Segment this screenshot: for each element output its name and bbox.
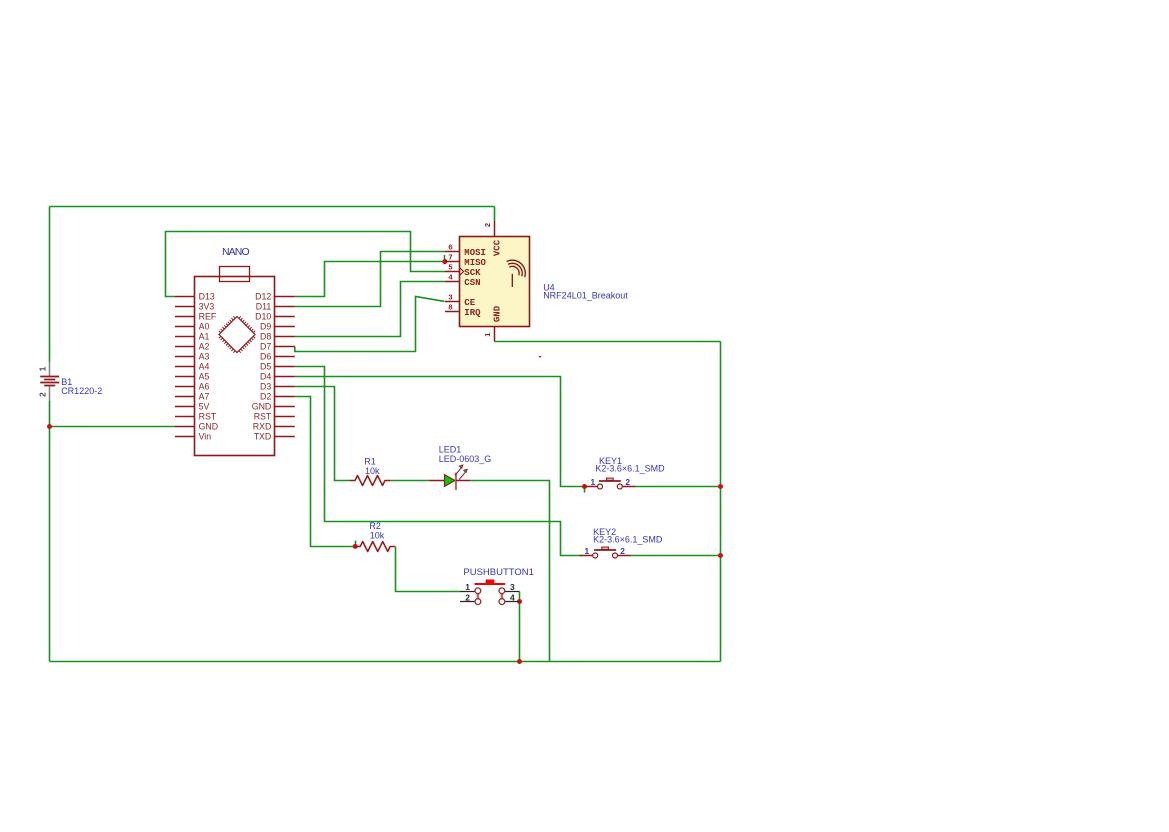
PUSHBUTTON1 contact circle	[475, 599, 481, 605]
wire D12 to MISO	[295, 262, 445, 297]
svg-text:D6: D6	[260, 352, 271, 362]
svg-text:GND: GND	[492, 305, 502, 322]
wire D11 to MOSI	[295, 252, 445, 307]
svg-text:NANO: NANO	[222, 246, 249, 258]
svg-text:D5: D5	[260, 362, 271, 372]
wire KEY1 pin 2 to right rail	[635, 486, 721, 488]
switch actuator bar	[599, 480, 621, 482]
PUSHBUTTON1 pin leads	[460, 592, 520, 602]
svg-text:D11: D11	[256, 302, 272, 312]
resistor R1	[350, 476, 390, 486]
svg-text:A3: A3	[199, 352, 210, 362]
wire PUSHBUTTON1 pin 3 to pin 4	[519, 592, 521, 602]
wire VCC top rail	[50, 206, 495, 208]
svg-text:Vin: Vin	[199, 432, 212, 442]
wire battery pin 2 down left rail	[49, 401, 51, 662]
svg-text:1: 1	[38, 366, 48, 371]
wire battery node to NANO GND	[50, 426, 176, 428]
svg-text:GND: GND	[252, 402, 272, 412]
svg-text:TXD: TXD	[254, 432, 272, 442]
svg-text:8: 8	[448, 303, 452, 312]
PUSHBUTTON1 contact circle	[499, 588, 505, 594]
svg-text:LED1: LED1	[439, 444, 462, 454]
wire D4 to KEY1 pin 1	[295, 377, 585, 487]
svg-text:2: 2	[483, 223, 492, 227]
wire R1 to LED1	[390, 480, 429, 482]
PUSHBUTTON1 contact circle	[475, 588, 481, 594]
PUSHBUTTON1 contact bar left	[477, 591, 480, 602]
switch lead pin1	[585, 486, 598, 488]
NANO pin leads	[175, 297, 295, 437]
LED1 cathode lead	[456, 480, 470, 482]
wire bottom rail	[50, 661, 721, 663]
svg-text:D9: D9	[260, 322, 271, 332]
svg-text:RXD: RXD	[253, 422, 272, 432]
svg-text:MOSI: MOSI	[464, 248, 486, 258]
svg-text:IRQ: IRQ	[464, 308, 481, 318]
battery B1 plates	[40, 377, 59, 386]
svg-text:R2: R2	[369, 521, 381, 531]
U4 left pin leads	[445, 252, 460, 312]
switch lead pin1	[580, 555, 593, 557]
LED1 anode lead	[429, 480, 444, 482]
wire D5 to KEY2 pin 1	[295, 367, 582, 556]
svg-text:K2-3.6×6.1_SMD: K2-3.6×6.1_SMD	[595, 464, 665, 474]
svg-text:VCC: VCC	[492, 239, 502, 256]
battery B1 leads	[49, 362, 51, 402]
wire D3 to R1	[295, 387, 350, 481]
svg-text:3: 3	[510, 582, 515, 592]
wire R2 to PUSHBUTTON1 pin 1	[396, 547, 461, 592]
stray mark	[539, 356, 542, 357]
switch lead pin2	[622, 486, 635, 488]
svg-text:D4: D4	[260, 372, 271, 382]
svg-text:D2: D2	[260, 392, 271, 402]
svg-text:3: 3	[448, 293, 452, 302]
LED1 emission arrow 1	[455, 468, 461, 475]
wire stub above MISO junction	[444, 255, 446, 259]
svg-text:A5: A5	[199, 372, 210, 382]
svg-text:2: 2	[465, 592, 470, 602]
svg-text:2: 2	[620, 546, 625, 556]
svg-text:A4: A4	[199, 362, 210, 372]
svg-text:1: 1	[585, 546, 590, 556]
switch contact circle left	[593, 553, 598, 558]
junction KEY1 pin1	[582, 484, 587, 489]
svg-text:A7: A7	[199, 392, 210, 402]
svg-text:D13: D13	[199, 292, 215, 302]
resistor R2	[355, 542, 395, 552]
wire LED1 to bottom rail	[470, 481, 550, 662]
wire left rail to battery pin 1	[49, 207, 51, 362]
wire D13 to SCK	[166, 232, 446, 297]
svg-text:A0: A0	[199, 322, 210, 332]
svg-text:CE: CE	[464, 298, 475, 308]
svg-text:SCK: SCK	[464, 268, 481, 278]
junction KEY2 pin2	[718, 553, 723, 558]
wire PUSHBUTTON1 pin 4 to bottom rail	[519, 602, 521, 662]
junction bottom rail	[517, 659, 522, 664]
LED1 emission arrow 2	[459, 472, 465, 479]
svg-text:REF: REF	[199, 312, 217, 322]
PUSHBUTTON1 contact circle	[499, 599, 505, 605]
svg-text:LED-0603_G: LED-0603_G	[439, 454, 492, 464]
wire VCC drop to U4 pin 2	[494, 207, 496, 222]
svg-text:A1: A1	[199, 332, 210, 342]
svg-text:1: 1	[465, 582, 470, 592]
U4 GND pin lead (pin 1)	[494, 327, 496, 342]
svg-text:5V: 5V	[199, 402, 210, 412]
switch lead pin2	[618, 555, 631, 557]
PUSHBUTTON1 actuator bar (red)	[475, 583, 506, 585]
junction MISO	[442, 259, 447, 264]
svg-text:PUSHBUTTON1: PUSHBUTTON1	[463, 567, 534, 578]
NANO body	[195, 277, 275, 456]
svg-text:D12: D12	[255, 292, 271, 302]
svg-text:CR1220-2: CR1220-2	[61, 386, 102, 396]
switch contact circle right	[617, 484, 622, 489]
NANO usb notch	[220, 267, 250, 282]
svg-text:D7: D7	[260, 342, 271, 352]
junction KEY1 pin2	[718, 484, 723, 489]
svg-text:6: 6	[448, 243, 452, 252]
svg-text:10k: 10k	[370, 531, 385, 541]
wire U4 GND to right rail	[495, 341, 721, 343]
svg-text:1: 1	[591, 477, 596, 487]
svg-text:R1: R1	[364, 456, 376, 466]
U4 SCK clock chevron	[460, 268, 464, 276]
wire right rail	[720, 342, 722, 662]
U4 antenna icon arcs	[507, 260, 526, 277]
svg-text:GND: GND	[199, 422, 219, 432]
LED1 triangle	[445, 475, 455, 487]
switch contact circle right	[613, 553, 618, 558]
op U4 NRF24L01_Breakout body	[460, 237, 530, 327]
svg-text:K2-3.6×6.1_SMD: K2-3.6×6.1_SMD	[593, 534, 663, 544]
svg-text:10k: 10k	[365, 466, 380, 476]
svg-text:A6: A6	[199, 382, 210, 392]
junction R2 pin1	[353, 544, 358, 549]
wire stub below KEY1 pin 1 junction	[584, 489, 586, 493]
svg-text:D8: D8	[260, 332, 271, 342]
junction battery-GND	[47, 424, 52, 429]
switch actuator bump	[602, 547, 609, 549]
junction PUSHBUTTON1 pin4	[517, 599, 522, 604]
svg-text:7: 7	[448, 253, 452, 262]
wire D2 to R2	[295, 397, 355, 547]
NANO chip diamond	[219, 317, 255, 353]
svg-text:RST: RST	[254, 412, 272, 422]
PUSHBUTTON1 actuator knob (red)	[486, 580, 495, 584]
svg-text:2: 2	[625, 477, 630, 487]
wire D7 to CE	[295, 297, 445, 352]
NANO chip diamond ticks	[219, 316, 255, 352]
wire stub above R2 junction	[355, 541, 357, 545]
svg-text:A2: A2	[199, 342, 210, 352]
LED1 cathode bar	[455, 473, 457, 490]
svg-text:D3: D3	[260, 382, 271, 392]
svg-text:CSN: CSN	[464, 278, 480, 288]
svg-text:MISO: MISO	[464, 258, 486, 268]
svg-text:4: 4	[510, 592, 515, 602]
wire KEY2 pin 2 to right rail	[630, 555, 721, 557]
U4 antenna icon stem	[511, 274, 513, 287]
switch actuator bar	[594, 549, 616, 551]
svg-text:D10: D10	[255, 312, 271, 322]
svg-text:2: 2	[38, 392, 48, 397]
wire D8 to CSN	[295, 282, 445, 337]
svg-text:RST: RST	[199, 412, 217, 422]
switch actuator bump	[607, 478, 614, 480]
U4 VCC pin lead (pin 2)	[494, 221, 496, 237]
svg-text:NRF24L01_Breakout: NRF24L01_Breakout	[543, 291, 628, 301]
svg-text:3V3: 3V3	[199, 302, 215, 312]
switch contact circle left	[598, 484, 603, 489]
PUSHBUTTON1 contact bar right	[501, 591, 504, 602]
